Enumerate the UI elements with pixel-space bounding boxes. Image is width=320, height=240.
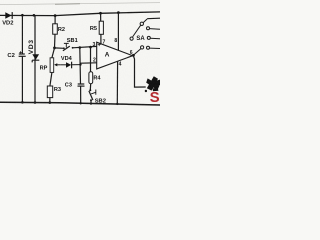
pushbutton SB2 <box>89 89 106 104</box>
resistor R4 <box>89 72 102 84</box>
wire SB1 to op-amp pin3 <box>73 46 97 47</box>
wire R3 bottom lead <box>49 98 51 103</box>
ink blot watermark <box>145 76 160 92</box>
wire SA contact 1 to edge <box>147 17 160 20</box>
diode VD2 <box>2 12 13 27</box>
wire timing vertical <box>79 48 82 104</box>
potentiometer RP <box>40 58 61 73</box>
node top rail junction (R2) <box>54 14 57 17</box>
wire R2 bottom lead <box>54 34 57 48</box>
switch SA pole 2 <box>130 37 133 40</box>
node top rail junction (pin8) <box>117 11 120 14</box>
node top rail junction (C2) <box>21 14 24 17</box>
resistor R2 <box>53 24 65 34</box>
wire bottom rail <box>0 102 160 105</box>
node op-amp output <box>132 54 135 57</box>
switch SA contact a <box>147 27 161 30</box>
wire VD3 branch vertical <box>34 15 36 102</box>
op-amp U1 (A) <box>97 42 133 69</box>
wire node to SB1 <box>55 47 64 49</box>
wire RP bottom lead <box>50 72 52 86</box>
wire faint top margin line <box>0 3 160 5</box>
diode VD4 <box>61 56 81 68</box>
wire op-amp pin2 lead <box>80 62 96 64</box>
wire R2 top lead <box>54 16 56 24</box>
node VD4 junction <box>79 63 81 65</box>
wire RP top lead <box>52 48 55 58</box>
capacitor C3 <box>65 83 85 89</box>
wire op-amp pin7 lead <box>100 34 102 44</box>
resistor R3 <box>47 86 61 98</box>
switch SA contact c <box>147 46 161 49</box>
node junction timing <box>79 46 82 49</box>
wire R4 to SB2 <box>89 84 91 91</box>
wire R5 top lead <box>100 13 102 21</box>
resistor R5 <box>90 21 103 34</box>
zener diode VD3 <box>28 39 40 62</box>
switch SA wiper arm lower <box>134 46 144 55</box>
wire R4 top lead <box>90 47 92 72</box>
switch SA contact b <box>147 36 160 39</box>
node junction R2/RP/SB1 <box>53 47 56 50</box>
node junction R4 <box>89 46 92 49</box>
node bottom rail junction (SB2) <box>90 103 92 105</box>
node bottom rail junction (C2) <box>21 101 24 104</box>
node bottom rail junction (VD3) <box>34 101 37 104</box>
node bottom rail junction (R3) <box>49 101 52 104</box>
pushbutton SB1 <box>63 38 78 51</box>
wire op-amp pin8 lead <box>117 13 119 51</box>
wire top supply rail <box>0 12 160 16</box>
node bottom rail junction (pin4) <box>116 103 118 105</box>
wire top rail smudge <box>55 3 80 6</box>
wire op-amp output down <box>133 56 145 88</box>
wire op-amp pin4 lead <box>116 61 118 104</box>
capacitor C2 <box>7 51 25 59</box>
switch SA pole 1 <box>140 19 147 25</box>
node bottom rail junction (C3) <box>80 102 82 104</box>
wire SA link <box>133 25 141 37</box>
wire C2 branch vertical <box>21 15 23 102</box>
node top rail junction (R5) <box>99 12 102 15</box>
node top rail junction (VD3) <box>33 14 36 17</box>
